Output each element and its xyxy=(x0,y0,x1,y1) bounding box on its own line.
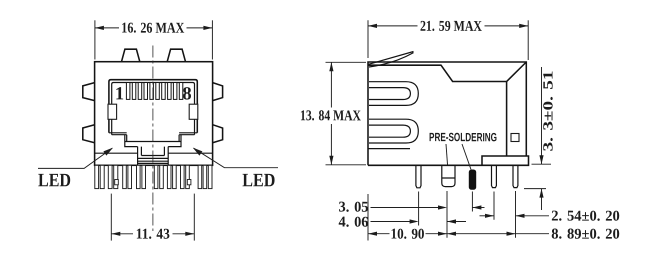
dimension 16.26 MAX line xyxy=(95,27,119,29)
front view wall notch left xyxy=(108,104,117,119)
PRE-SOLDERING leader 2 xyxy=(462,144,471,170)
front view side tab upper-left xyxy=(83,83,95,101)
front view side tab lower-right xyxy=(213,125,223,143)
dimension 8.89 line xyxy=(447,233,516,235)
front view face line left xyxy=(95,152,138,154)
svg-text:4. 06: 4. 06 xyxy=(338,215,369,231)
svg-text:2. 54±0. 20: 2. 54±0. 20 xyxy=(551,209,620,225)
dimension 13.84 MAX extension lines xyxy=(326,61,367,63)
dimension 13.84 MAX arrows xyxy=(329,62,333,71)
dimension 21.59 MAX extension lines xyxy=(367,20,369,58)
front view latch ledge box xyxy=(125,142,181,147)
dimension 11.43 arrows xyxy=(111,232,120,236)
front view top tab left xyxy=(122,49,140,62)
PRE-SOLDERING leader 1 xyxy=(446,144,448,165)
LED leader arrow right xyxy=(193,148,203,156)
front view centerline xyxy=(152,46,154,232)
front view port opening outer wall xyxy=(109,80,197,133)
front view bottom pin comb xyxy=(95,165,212,188)
dimension 8.89 arrows xyxy=(447,232,456,236)
svg-text:1: 1 xyxy=(115,84,124,104)
dimension 3.3 arrows xyxy=(539,155,543,164)
side view pin A xyxy=(416,165,421,188)
svg-text:13. 84 MAX: 13. 84 MAX xyxy=(300,108,361,124)
side view pin E xyxy=(513,165,518,187)
side view body outline xyxy=(368,62,529,165)
dimension 21.59 MAX arrows xyxy=(368,24,377,28)
side view base line xyxy=(368,148,410,150)
dimension 3.05 line xyxy=(371,207,439,209)
side view square window xyxy=(511,134,519,142)
dimension 2.54 arrows xyxy=(485,214,494,218)
front view body outline xyxy=(95,62,213,166)
dimension 3.3 reference tick bottom xyxy=(524,188,546,190)
svg-text:3. 05: 3. 05 xyxy=(338,200,368,216)
dimension 4.06 arrows xyxy=(410,219,419,223)
front view latch slot xyxy=(138,147,169,166)
svg-text:16. 26 MAX: 16. 26 MAX xyxy=(121,21,184,37)
LED leader arrow left xyxy=(103,148,113,156)
dimension 21.59 MAX line xyxy=(368,25,418,27)
front view side tab lower-left xyxy=(83,125,95,143)
dimension 16.26 MAX extension lines xyxy=(94,20,96,59)
front view contact bars xyxy=(126,83,182,100)
dimension 10.90 arrows xyxy=(368,232,377,236)
svg-text:8: 8 xyxy=(182,84,191,104)
dimension 13.84 MAX line xyxy=(330,62,332,107)
front view side tab upper-right xyxy=(213,83,223,101)
dimension 2.54 line xyxy=(480,215,495,217)
svg-text:LED: LED xyxy=(242,170,275,191)
dimension 11.43 line xyxy=(111,233,133,235)
side view top face inset xyxy=(368,62,526,82)
side view pin C pre-soldered xyxy=(469,170,476,190)
dimension 4.06 line xyxy=(371,221,411,223)
LED leader right xyxy=(194,148,278,168)
svg-text:3. 3±0. 51: 3. 3±0. 51 xyxy=(541,71,556,152)
svg-text:LED: LED xyxy=(38,170,71,191)
side view pin extension lines xyxy=(367,194,369,241)
side view contact spring lower xyxy=(369,119,418,143)
dimension 3.3 reference tick top xyxy=(532,163,552,165)
side view front face edge xyxy=(506,82,508,157)
LED lead square left xyxy=(115,180,119,185)
svg-text:11. 43: 11. 43 xyxy=(136,227,170,243)
front view wall notch right xyxy=(189,104,198,119)
side view pin D xyxy=(492,165,497,187)
LED lead square right xyxy=(187,180,191,185)
front view wall step right xyxy=(179,133,197,142)
side view pin B xyxy=(442,165,455,186)
front view top tab right xyxy=(167,49,185,62)
dimension 11.43 extension lines xyxy=(110,194,112,241)
svg-text:8. 89±0. 20: 8. 89±0. 20 xyxy=(551,227,620,243)
svg-text:10. 90: 10. 90 xyxy=(390,227,424,243)
dimension 10.90 line xyxy=(368,233,390,235)
dimension 16.26 MAX arrows xyxy=(95,26,104,30)
LED leader left xyxy=(38,148,112,168)
front view face line right xyxy=(168,152,212,154)
dimension 3.05 arrows xyxy=(438,205,447,209)
svg-text:21. 59 MAX: 21. 59 MAX xyxy=(420,19,482,35)
side view latch lever xyxy=(369,52,414,68)
front view wall step left xyxy=(109,133,127,142)
dimension 3.3 line xyxy=(541,67,543,164)
side view contact spring upper xyxy=(369,82,418,106)
svg-text:PRE-SOLDERING: PRE-SOLDERING xyxy=(429,130,497,144)
front view port opening inner wall xyxy=(112,83,195,135)
